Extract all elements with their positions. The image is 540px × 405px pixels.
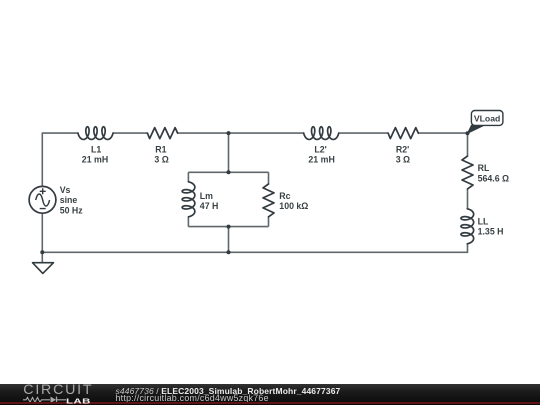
svg-text:LL: LL [478, 216, 489, 226]
svg-text:L1: L1 [91, 144, 101, 154]
svg-text:Rc: Rc [279, 191, 290, 201]
svg-text:47 H: 47 H [200, 201, 219, 211]
svg-text:21 mH: 21 mH [308, 155, 334, 165]
svg-text:RL: RL [478, 163, 490, 173]
svg-text:L2': L2' [314, 145, 326, 155]
svg-text:Vs: Vs [60, 185, 71, 195]
svg-text:VLoad: VLoad [474, 113, 501, 123]
svg-text:sine: sine [60, 195, 78, 205]
svg-text:564.6 Ω: 564.6 Ω [478, 173, 510, 183]
svg-text:R1: R1 [155, 144, 166, 154]
svg-text:50 Hz: 50 Hz [60, 205, 84, 215]
svg-text:21 mH: 21 mH [82, 154, 108, 164]
svg-text:1.35 H: 1.35 H [478, 227, 504, 237]
svg-text:Lm: Lm [200, 191, 213, 201]
svg-text:100 kΩ: 100 kΩ [279, 201, 308, 211]
svg-text:3 Ω: 3 Ω [396, 155, 410, 165]
svg-text:R2': R2' [396, 145, 409, 155]
svg-text:3 Ω: 3 Ω [154, 154, 168, 164]
